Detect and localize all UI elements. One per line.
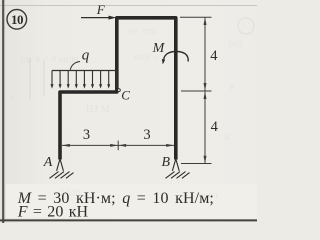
svg-text:A: A <box>43 155 53 170</box>
svg-text:B: B <box>162 155 171 170</box>
svg-text:где в = 0 видн: где в = 0 видн <box>20 54 80 65</box>
svg-text:C: C <box>121 88 130 103</box>
svg-text:q: q <box>82 48 90 64</box>
svg-text:F: F <box>96 2 106 17</box>
svg-text:M: M <box>152 41 166 56</box>
svg-text:3: 3 <box>143 127 150 143</box>
svg-text:в: в <box>230 82 235 93</box>
svg-text:F = 20 кН: F = 20 кН <box>17 204 89 221</box>
svg-text:4: 4 <box>211 119 219 135</box>
svg-text:10: 10 <box>11 12 23 27</box>
svg-text:ред: ред <box>228 38 242 49</box>
svg-text:к: к <box>225 132 230 143</box>
svg-text:3: 3 <box>83 127 90 143</box>
svg-text:ИЗ М: ИЗ М <box>86 104 110 115</box>
svg-text:≤: ≤ <box>10 92 16 103</box>
svg-text:не, что: не, что <box>128 26 157 37</box>
svg-text:4: 4 <box>210 48 218 64</box>
